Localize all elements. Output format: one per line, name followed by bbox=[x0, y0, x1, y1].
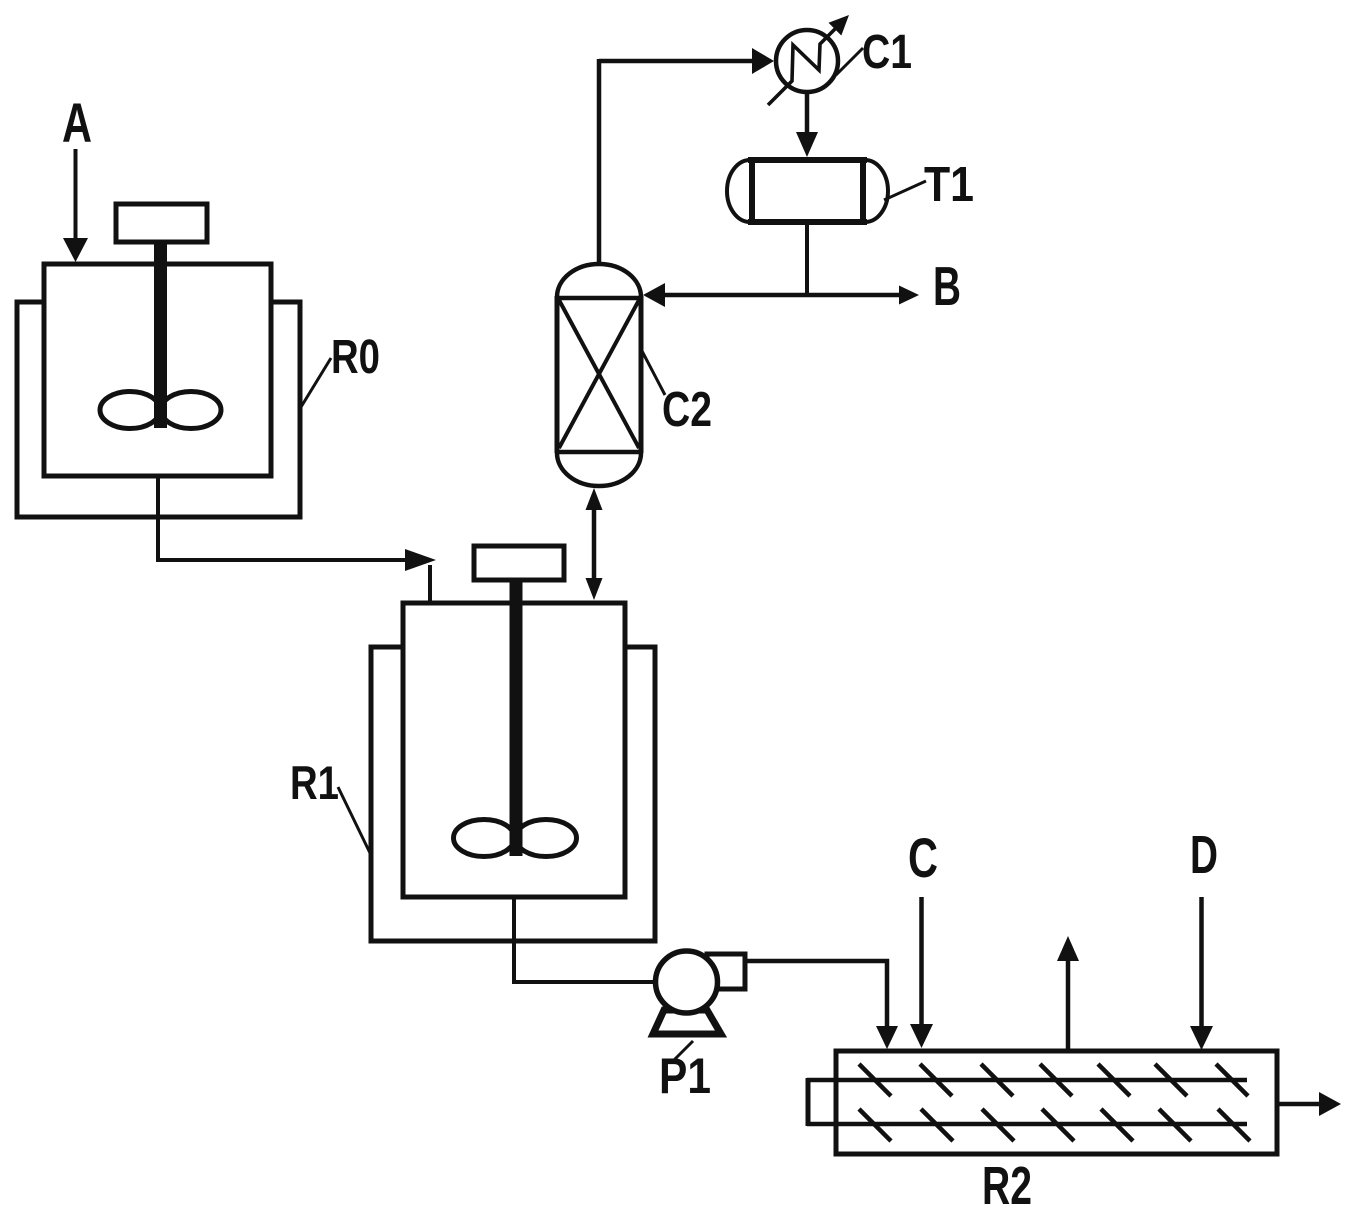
svg-text:R1: R1 bbox=[290, 756, 339, 809]
svg-text:R2: R2 bbox=[982, 1156, 1032, 1210]
svg-text:A: A bbox=[62, 91, 92, 154]
svg-text:D: D bbox=[1190, 825, 1218, 885]
svg-text:P1: P1 bbox=[659, 1048, 711, 1104]
svg-text:B: B bbox=[933, 255, 961, 317]
svg-text:C2: C2 bbox=[662, 383, 712, 437]
svg-text:C: C bbox=[908, 826, 938, 889]
svg-text:C1: C1 bbox=[862, 26, 912, 79]
svg-text:R0: R0 bbox=[331, 331, 380, 384]
svg-text:T1: T1 bbox=[924, 158, 974, 212]
